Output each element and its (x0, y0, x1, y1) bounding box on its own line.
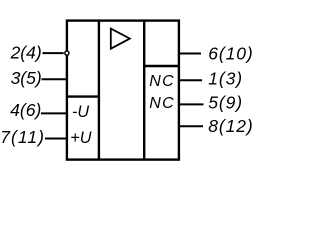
svg-text:1(3): 1(3) (208, 68, 243, 88)
svg-text:4(6): 4(6) (10, 100, 41, 120)
svg-text:+U: +U (70, 129, 91, 147)
svg-text:5(9): 5(9) (208, 92, 243, 112)
svg-text:3(5): 3(5) (11, 68, 42, 88)
pin 8(12) wire (179, 125, 203, 127)
inverting input node circle (65, 51, 69, 55)
svg-text:2(4): 2(4) (10, 42, 42, 62)
pin 6(10) wire (179, 53, 201, 55)
svg-text:NC: NC (149, 73, 175, 90)
NC box top edge (144, 65, 179, 67)
svg-text:8(12): 8(12) (208, 116, 253, 136)
svg-text:6(10): 6(10) (208, 43, 253, 63)
pin 4(6) wire (41, 112, 67, 114)
op-amp triangle U1 (111, 29, 130, 49)
svg-text:7(11): 7(11) (0, 127, 45, 147)
pin 3(5) wire (42, 78, 67, 80)
pin 7(11) wire (45, 138, 67, 140)
supply box top edge (67, 95, 99, 97)
left column divider (98, 21, 100, 160)
right column divider (143, 21, 145, 160)
IC body outline (67, 21, 179, 160)
svg-text:NC: NC (149, 95, 175, 112)
svg-text:-U: -U (72, 103, 89, 121)
pin 5(9) wire (179, 103, 204, 105)
pin 2(4) wire (43, 52, 64, 54)
pin 1(3) wire (179, 79, 202, 81)
